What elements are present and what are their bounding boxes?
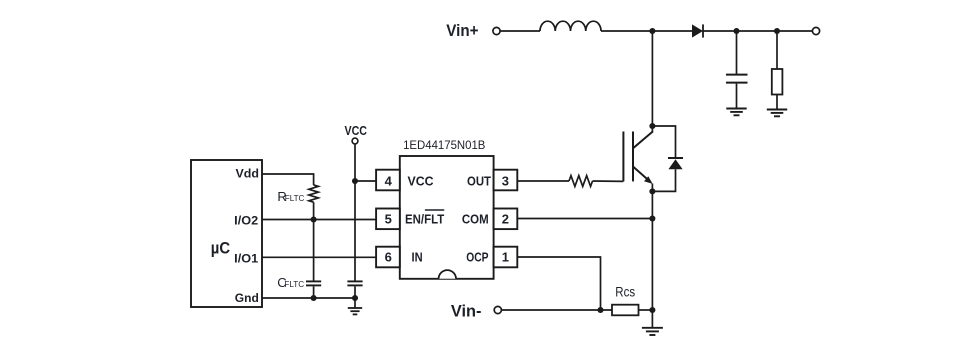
wire node to signal ground	[354, 298, 356, 308]
wire OCP pin1 to Vin- rail	[517, 257, 600, 310]
resistor gate	[569, 176, 593, 187]
svg-text:VCC: VCC	[345, 123, 368, 138]
microcontroller U2 box	[191, 160, 262, 307]
ground signal	[348, 308, 362, 314]
pin 1 box	[494, 247, 518, 268]
node collector junction	[649, 123, 655, 129]
svg-text:Gnd: Gnd	[235, 291, 259, 305]
svg-text:3: 3	[502, 174, 509, 189]
wire I/O1 to pin 6	[262, 256, 376, 258]
node CFLTC / Gnd junction	[311, 295, 317, 301]
svg-text:FLTC: FLTC	[284, 279, 304, 289]
wire gate resistor to gate	[593, 180, 624, 182]
terminal VCC	[352, 138, 358, 144]
wire VCC to pin 4	[355, 180, 376, 182]
svg-text:VCC: VCC	[408, 174, 434, 188]
wire RFLTC to I/O2 line	[313, 202, 315, 219]
node emitter junction	[649, 188, 655, 194]
diode D1	[692, 24, 703, 37]
wire output resistor to ground	[776, 95, 778, 110]
overline on FLT	[425, 209, 444, 211]
pin 5 box	[376, 209, 400, 230]
node signal ground junction	[352, 295, 358, 301]
ground power	[642, 328, 663, 335]
wire node to output resistor	[776, 31, 778, 69]
wire VCC down to bypass cap	[354, 144, 356, 281]
terminal Vin+	[493, 27, 500, 34]
wire Rcs to ground node	[639, 309, 653, 311]
wire diode D1 to output terminal	[703, 30, 812, 32]
svg-text:µC: µC	[211, 240, 230, 258]
op-amp U1 gate driver 1ED44175N01B body	[400, 156, 494, 279]
node RFLTC / I/O2 junction	[311, 216, 317, 222]
svg-text:I/O2: I/O2	[234, 213, 258, 227]
inductor L1	[540, 21, 601, 31]
svg-text:FLTC: FLTC	[285, 193, 305, 203]
wire OUT pin3 to gate resistor	[517, 180, 569, 182]
svg-text:EN/FLT: EN/FLT	[405, 213, 444, 227]
svg-text:1ED44175N01B: 1ED44175N01B	[403, 138, 485, 152]
pin 6 box	[376, 247, 400, 268]
wire inductor to diode D1	[601, 30, 692, 32]
pin 2 box	[494, 209, 518, 230]
wire emitter down to Vin- rail	[651, 184, 653, 311]
notch package marker	[439, 270, 456, 279]
node ground junction on Vin- rail	[649, 307, 655, 313]
svg-text:5: 5	[385, 212, 392, 227]
node junction output cap	[733, 28, 739, 34]
capacitor C output	[726, 75, 748, 83]
wire I/O2 to pin 5	[262, 219, 376, 221]
capacitor VCC bypass	[347, 281, 362, 285]
wire Vdd to RFLTC	[262, 174, 314, 185]
wire bypass cap to ground node	[354, 286, 356, 298]
wire output capacitor to ground	[736, 84, 738, 109]
node OCP junction on Vin- rail	[597, 307, 603, 313]
svg-text:1: 1	[502, 250, 509, 265]
transistor Q1 IGBT	[623, 131, 653, 182]
wire CFLTC branch upper	[313, 220, 315, 282]
svg-text:OUT: OUT	[467, 174, 491, 188]
ground under output capacitor	[726, 109, 746, 116]
svg-text:I/O1: I/O1	[234, 251, 258, 265]
svg-text:2: 2	[502, 212, 509, 227]
wire COM pin2 to emitter branch	[517, 218, 652, 220]
pin 3 box	[494, 170, 518, 191]
svg-text:IN: IN	[412, 250, 423, 264]
wire node to output capacitor	[736, 31, 738, 74]
svg-text:Vin+: Vin+	[446, 22, 478, 40]
svg-text:COM: COM	[462, 213, 489, 227]
node junction output resistor	[774, 28, 780, 34]
resistor RFLTC	[309, 185, 318, 202]
pin 4 box	[376, 170, 400, 191]
svg-text:Rcs: Rcs	[615, 284, 635, 300]
node COM junction	[649, 215, 655, 221]
svg-text:Vin-: Vin-	[451, 302, 482, 320]
wire CFLTC to Gnd line	[313, 286, 315, 298]
resistor Rcs	[612, 305, 639, 316]
wire node to power ground	[651, 310, 653, 328]
diode D2	[668, 158, 683, 169]
svg-text:Vdd: Vdd	[236, 166, 260, 180]
svg-text:6: 6	[385, 250, 392, 265]
wire D2 anode to emitter node	[652, 169, 675, 191]
emitter arrow of Q1	[644, 176, 653, 184]
node VCC / pin4 junction	[352, 178, 358, 184]
node junction top of switch branch	[649, 28, 655, 34]
wire Vin- to Rcs	[502, 309, 612, 311]
freewheel diode D2 wire from collector	[652, 126, 675, 158]
terminal output	[812, 27, 819, 34]
ground under output resistor	[767, 110, 787, 117]
svg-text:OCP: OCP	[466, 250, 488, 264]
resistor R output	[772, 69, 783, 95]
wire Vin+ to inductor	[500, 30, 540, 32]
svg-text:4: 4	[385, 174, 393, 189]
wire Gnd to ground node	[262, 297, 355, 299]
terminal Vin-	[494, 306, 501, 313]
wire top rail to IGBT collector	[651, 31, 653, 132]
capacitor CFLTC	[306, 281, 321, 285]
